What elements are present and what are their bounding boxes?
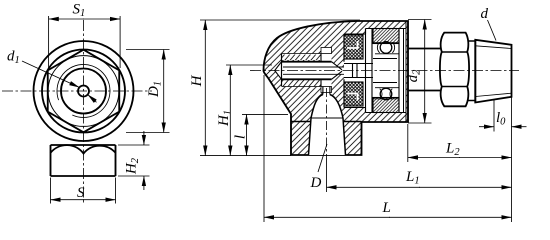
dimension H — [200, 20, 360, 156]
dimension l — [242, 113, 288, 115]
washer A — [366, 29, 373, 113]
centerline horizontal (left view) — [2, 90, 152, 92]
dimension S — [51, 178, 116, 204]
dimension leader d1 — [22, 61, 79, 87]
hexagon (wrench flats S1) — [48, 50, 120, 133]
bearing outer rects — [373, 29, 399, 44]
dimension d2 — [408, 20, 432, 124]
bottom leg cavity (bore D) — [291, 87, 362, 156]
cavity boundary — [344, 34, 366, 108]
dimension leader d — [488, 20, 497, 41]
washer B / cap — [404, 22, 407, 123]
dimension L2 — [407, 124, 409, 162]
centerline vertical (left view) — [83, 20, 85, 203]
dimension l0 — [493, 100, 495, 132]
dimension leader D — [318, 144, 327, 172]
internal threaded bore with pin — [275, 48, 344, 93]
circle D1 (boss diameter) — [42, 50, 125, 133]
svg-text:d: d — [481, 6, 489, 22]
relief grooves — [321, 48, 332, 54]
svg-text:S: S — [77, 185, 85, 201]
dimension L1 — [327, 186, 421, 188]
dimension S1 — [49, 16, 121, 68]
svg-text:L: L — [382, 200, 391, 216]
dimension D1 — [126, 50, 170, 133]
tapered external thread d — [475, 40, 511, 103]
hex nut below (side view, height H2) — [51, 145, 116, 176]
check-valve assembly: packing, washers, ball bearing — [344, 22, 406, 123]
center hole d1 — [78, 86, 89, 97]
sectioned body of angled grease fitting (hatched) — [264, 21, 409, 155]
svg-text:D: D — [310, 175, 322, 191]
bore circle (thread minor) — [61, 69, 106, 114]
outer boss circle — [34, 41, 134, 141]
bottom leg centerline — [326, 88, 328, 158]
end cone — [320, 54, 322, 87]
internal thread arc (3/4 circle) — [57, 64, 110, 117]
internal voids (bore, valve cavity, bottom cavity) — [275, 29, 406, 156]
race lines + balls — [373, 43, 399, 99]
dimension L — [264, 75, 512, 222]
stem — [344, 64, 373, 78]
collar between hex and thread — [466, 41, 475, 101]
pin — [283, 67, 344, 74]
hex flats (side view) — [440, 33, 469, 107]
packing blocks — [344, 35, 363, 59]
dimension H1 — [226, 64, 272, 66]
svg-text:l: l — [233, 135, 249, 139]
inner sleeve — [373, 29, 399, 113]
svg-text:H: H — [189, 74, 205, 87]
hex chamfer circle — [48, 56, 119, 127]
dimension H2 — [118, 145, 150, 176]
axis centerline (right view) — [250, 70, 519, 72]
neck cylinder — [408, 49, 441, 91]
